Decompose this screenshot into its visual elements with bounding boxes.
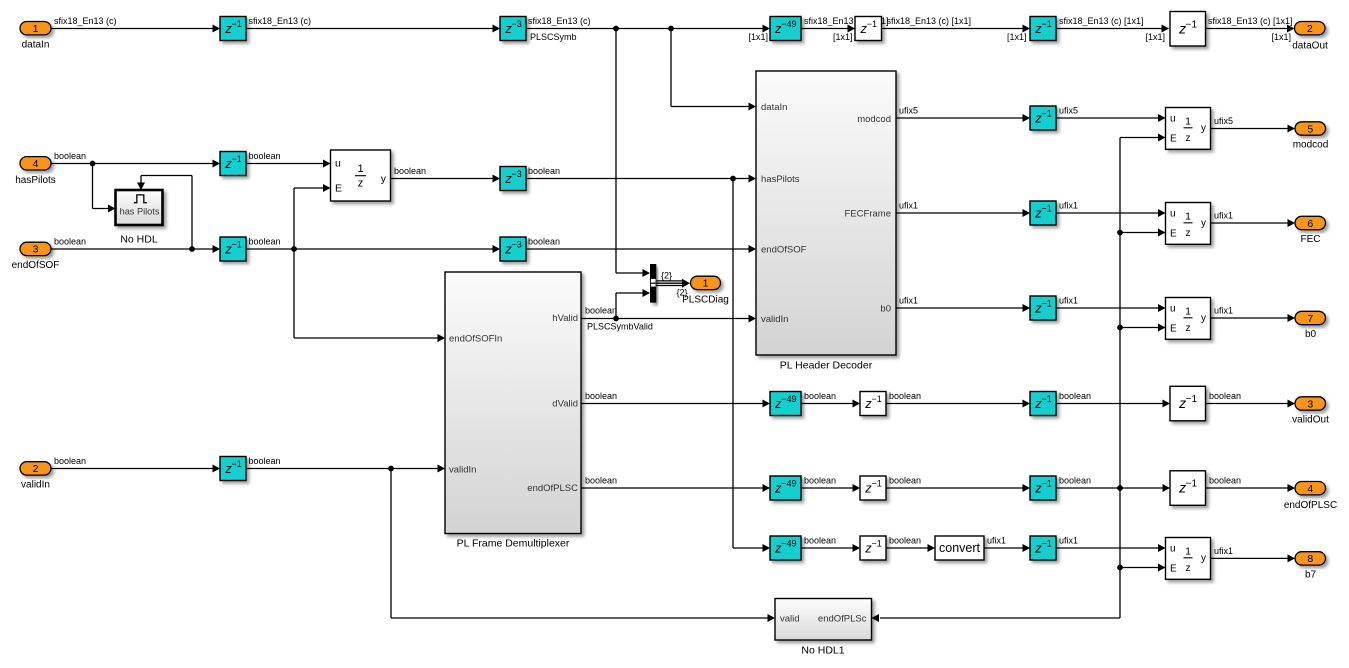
wire delay to enabled delay u [246, 163, 324, 165]
white delay Z-1 b7 row [860, 536, 886, 560]
big delay Z-1 endOfPLSC row [1170, 471, 1206, 506]
svg-text:FEC: FEC [1301, 234, 1321, 245]
white delay Z-1 dataIn row [855, 17, 882, 41]
wire validIn port to delay [51, 468, 214, 470]
output port 5 modcod [1295, 122, 1326, 136]
input port 4 hasPilots [20, 157, 51, 171]
wire PLSCSymbValid up [615, 293, 617, 319]
svg-text:boolean: boolean [249, 151, 281, 161]
svg-text:u: u [1170, 544, 1176, 555]
svg-text:boolean: boolean [1209, 475, 1241, 485]
svg-text:E: E [1170, 134, 1177, 145]
svg-text:endOfPLSC: endOfPLSC [527, 483, 578, 494]
svg-text:1: 1 [1185, 306, 1191, 318]
svg-text:y: y [1201, 553, 1206, 564]
wire cyan to big delay endOfPLSC [1056, 487, 1164, 489]
svg-text:1: 1 [357, 163, 363, 175]
svg-text:E: E [335, 183, 342, 195]
svg-text:−1: −1 [232, 240, 242, 250]
junction validIn tap [388, 466, 394, 472]
delay Z-1 dataIn row [220, 17, 246, 41]
svg-text:−3: −3 [512, 240, 522, 250]
svg-text:−1: −1 [1186, 394, 1198, 405]
svg-text:boolean: boolean [528, 236, 560, 246]
svg-text:−1: −1 [1042, 19, 1052, 29]
wire enabled delay y to z-3 [391, 178, 494, 180]
svg-text:endOfPLSC: endOfPLSC [1284, 500, 1337, 511]
svg-text:dataOut: dataOut [1292, 40, 1328, 51]
svg-text:ufix1: ufix1 [1214, 211, 1233, 221]
svg-text:b0: b0 [1305, 329, 1317, 340]
svg-text:endOfSOFIn: endOfSOFIn [449, 333, 502, 344]
svg-text:No HDL1: No HDL1 [801, 644, 844, 656]
svg-text:−1: −1 [1042, 479, 1052, 489]
svg-text:−3: −3 [512, 19, 522, 29]
wire enable distribution line [1119, 138, 1121, 619]
svg-text:−49: −49 [781, 539, 796, 549]
wire cyan to b7 unit delay u [1056, 547, 1159, 549]
svg-text:−1: −1 [1186, 479, 1198, 490]
svg-text:validIn: validIn [449, 464, 476, 475]
svg-text:z: z [1185, 322, 1190, 334]
wire dValid to z-49 [581, 403, 764, 405]
svg-text:validIn: validIn [21, 480, 50, 491]
svg-text:FECFrame: FECFrame [845, 209, 891, 220]
svg-text:sfix18_En13 (c): sfix18_En13 (c) [249, 16, 312, 26]
big delay Z-1 dataOut row [1170, 12, 1206, 47]
wire validIn down [390, 469, 392, 619]
wire z-49 to white delay [801, 28, 849, 30]
wire cyan to FEC unit delay u [1056, 212, 1159, 214]
svg-text:2: 2 [1307, 23, 1313, 35]
output port 3 validOut [1295, 397, 1326, 411]
svg-text:−1: −1 [872, 479, 882, 489]
wire endOfSOF up [191, 176, 193, 250]
svg-text:PLSCSymb: PLSCSymb [530, 32, 577, 42]
wire endOfSOF up to E [293, 188, 295, 249]
svg-text:boolean: boolean [54, 236, 86, 246]
wire into No HDL1 valid [391, 617, 769, 619]
svg-text:boolean: boolean [804, 535, 836, 545]
wire into modcod E [1120, 137, 1159, 139]
svg-text:u: u [1170, 209, 1176, 220]
delay Z-3 hasPilots path [500, 167, 526, 191]
svg-text:1: 1 [1185, 546, 1191, 558]
wire into enabled delay E [294, 187, 324, 189]
output port 2 dataOut [1295, 22, 1326, 36]
svg-text:y: y [1201, 218, 1206, 229]
svg-text:y: y [1201, 123, 1206, 134]
cyan delay Z-1 endOfPLSC row [1030, 476, 1056, 500]
wire z-49 to white delay dValid [801, 403, 854, 405]
enabled unit delay FEC [1166, 203, 1211, 245]
delay Z-1 validIn row [220, 457, 246, 481]
svg-text:boolean: boolean [1209, 391, 1241, 401]
wire modcod y to port 5 [1211, 128, 1289, 130]
svg-text:[1x1]: [1x1] [1271, 32, 1291, 42]
svg-text:−1: −1 [1042, 539, 1052, 549]
cyan delay Z-1 validOut row [1030, 392, 1056, 416]
svg-text:2: 2 [33, 463, 39, 475]
svg-text:boolean: boolean [585, 305, 617, 315]
svg-text:1: 1 [1185, 116, 1191, 128]
wire cyan to modcod unit delay u [1056, 117, 1159, 119]
svg-text:ufix1: ufix1 [987, 535, 1006, 545]
wire hValid to decoder validIn [581, 318, 750, 320]
svg-text:sfix18_En13 (c) [1x1]: sfix18_En13 (c) [1x1] [1208, 16, 1293, 26]
svg-text:[1x1]: [1x1] [748, 32, 768, 42]
svg-text:modcod: modcod [1293, 140, 1329, 151]
svg-text:modcod: modcod [857, 114, 891, 125]
junction endOfSOF tap B [291, 246, 297, 252]
svg-text:sfix18_En13 (c) [1x1]: sfix18_En13 (c) [1x1] [1059, 16, 1144, 26]
wire b7 y to port 8 [1211, 557, 1289, 559]
delay Z-49 b7 row [770, 536, 801, 560]
subsystem PL Header Decoder [756, 71, 896, 355]
svg-text:−1: −1 [1186, 19, 1198, 30]
svg-text:E: E [1170, 564, 1177, 575]
svg-text:[1x1]: [1x1] [1007, 32, 1027, 42]
arrowhead into No HDL1 endOfPLSc [872, 614, 880, 622]
subsystem has Pilots (No HDL) [116, 190, 163, 225]
svg-text:PL Frame Demultiplexer: PL Frame Demultiplexer [457, 538, 570, 550]
svg-text:PLSCSymbValid: PLSCSymbValid [587, 322, 653, 332]
svg-text:endOfPLSc: endOfPLSc [818, 613, 867, 624]
delay Z-1 hasPilots row [220, 152, 246, 176]
svg-text:4: 4 [1307, 483, 1313, 495]
svg-text:{2}: {2} [661, 270, 672, 280]
white delay Z-1 endOfPLSC row [860, 476, 886, 500]
cyan delay Z-1 dataOut row [1030, 17, 1056, 41]
svg-text:b0: b0 [880, 304, 891, 315]
svg-text:−3: −3 [512, 169, 522, 179]
wire cyan to b0 unit delay u [1056, 307, 1159, 309]
subsystem No HDL1 [775, 599, 872, 641]
wire cyan delay to big delay [1056, 28, 1163, 30]
svg-text:y: y [381, 173, 387, 185]
cyan delay Z-1 modcod row [1030, 106, 1056, 130]
subsystem PL Frame Demultiplexer [445, 272, 581, 534]
junction endOfPLSC enable tap [1117, 485, 1123, 491]
wire endOfSOF port to delay [51, 248, 214, 250]
junction PLSCSymb tap 1 [613, 26, 619, 32]
svg-text:z: z [358, 178, 364, 190]
wire into demux endOfSOFIn [294, 337, 439, 339]
svg-text:u: u [335, 158, 341, 170]
big delay Z-1 validOut row [1170, 386, 1206, 421]
svg-text:ufix1: ufix1 [1214, 306, 1233, 316]
wire PLSCSymb down to decoder [670, 29, 672, 107]
wire into bus creator input 1 [616, 272, 644, 274]
svg-text:has Pilots: has Pilots [120, 206, 160, 216]
svg-text:ufix1: ufix1 [1059, 295, 1078, 305]
svg-text:−1: −1 [872, 394, 882, 404]
svg-text:sfix18_En13 (c): sfix18_En13 (c) [528, 16, 591, 26]
wire FEC y to port 6 [1211, 222, 1289, 224]
svg-text:endOfSOF: endOfSOF [761, 244, 807, 255]
wire delay to z-3 endOfSOF [246, 248, 494, 250]
svg-text:ufix1: ufix1 [1059, 535, 1078, 545]
svg-text:1: 1 [33, 23, 39, 35]
svg-text:−1: −1 [872, 539, 882, 549]
output port 4 endOfPLSC [1295, 482, 1326, 496]
wire big delay to endOfPLSC port [1206, 487, 1289, 489]
svg-text:z: z [1185, 562, 1190, 574]
output port 1 PLSCDiag [691, 276, 721, 290]
svg-text:PL Header Decoder: PL Header Decoder [780, 359, 873, 371]
wire cyan to big delay validOut [1056, 403, 1164, 405]
wire b0 y to port 7 [1211, 317, 1289, 319]
cyan delay Z-1 b7 row [1030, 536, 1056, 560]
wire delay to demux validIn [246, 468, 439, 470]
svg-text:−1: −1 [232, 459, 242, 469]
svg-text:z: z [1185, 132, 1190, 144]
output port 8 b7 [1295, 552, 1326, 566]
svg-text:boolean: boolean [1059, 391, 1091, 401]
svg-text:boolean: boolean [249, 456, 281, 466]
svg-text:dataIn: dataIn [761, 102, 787, 113]
wire delay to z-3 [246, 28, 494, 30]
svg-text:valid: valid [780, 613, 800, 624]
enabled unit delay b7 [1166, 538, 1211, 580]
svg-text:sfix18_En13 (c): sfix18_En13 (c) [54, 16, 117, 26]
delay Z-1 endOfSOF row [220, 237, 246, 261]
svg-text:boolean: boolean [394, 166, 426, 176]
svg-text:{2}: {2} [677, 288, 688, 298]
svg-text:boolean: boolean [585, 391, 617, 401]
junction enable tap b7 [1117, 565, 1123, 571]
svg-text:convert: convert [939, 541, 981, 555]
wire endOfSOF left [141, 175, 192, 177]
svg-text:No HDL: No HDL [120, 234, 158, 246]
output port 6 FEC [1295, 216, 1326, 230]
wire hasPilots down [92, 164, 94, 209]
wire z-3 to decoder endOfSOF [526, 248, 750, 250]
delay Z-49 dValid row [770, 392, 801, 416]
svg-text:z: z [1185, 227, 1190, 239]
svg-text:6: 6 [1307, 218, 1313, 230]
svg-text:validIn: validIn [761, 314, 788, 325]
svg-text:boolean: boolean [889, 535, 921, 545]
wire b0 to cyan [896, 307, 1024, 309]
wire PLSCSymb down to bus [615, 29, 617, 274]
svg-text:−49: −49 [781, 479, 796, 489]
junction hasPilots delayed tap [730, 176, 736, 182]
svg-text:ufix1: ufix1 [899, 295, 918, 305]
input port 1 dataIn [20, 22, 51, 36]
enabled unit delay b0 [1166, 298, 1211, 340]
svg-text:ufix5: ufix5 [1059, 105, 1078, 115]
svg-text:ufix5: ufix5 [899, 105, 918, 115]
wire into b0 E [1120, 327, 1159, 329]
svg-text:boolean: boolean [249, 236, 281, 246]
svg-text:boolean: boolean [889, 391, 921, 401]
svg-text:endOfSOF: endOfSOF [12, 260, 60, 271]
svg-text:−49: −49 [781, 19, 796, 29]
wire endOfSOF down [293, 249, 295, 338]
bus creator PLSCDiag [650, 264, 656, 303]
wire into b7 E [1120, 567, 1159, 569]
convert block [935, 536, 984, 560]
wire endOfPLSC to z-49 [581, 487, 764, 489]
svg-text:dataIn: dataIn [22, 39, 50, 50]
wire hasPilots port to delay [51, 163, 214, 165]
svg-text:boolean: boolean [804, 475, 836, 485]
junction hasPilots tap [90, 161, 96, 167]
svg-text:boolean: boolean [585, 475, 617, 485]
enabled unit delay modcod [1166, 108, 1211, 150]
svg-text:7: 7 [1307, 313, 1313, 325]
white delay Z-1 dValid row [860, 392, 886, 416]
arrowhead into has Pilots top [137, 183, 145, 191]
svg-text:−1: −1 [1042, 109, 1052, 119]
svg-text:boolean: boolean [1059, 475, 1091, 485]
svg-text:b7: b7 [1305, 569, 1317, 580]
wire white delay to cyan delay [882, 28, 1024, 30]
svg-text:8: 8 [1307, 553, 1313, 565]
wire white delay to cyan endOfPLSC [886, 487, 1024, 489]
svg-text:ufix1: ufix1 [899, 200, 918, 210]
svg-text:−1: −1 [867, 19, 877, 29]
svg-text:[1x1]: [1x1] [1145, 32, 1165, 42]
wire into PL Header Decoder dataIn [671, 106, 750, 108]
wire FECFrame to cyan [896, 212, 1024, 214]
input port 3 endOfSOF [20, 242, 51, 256]
wire convert to cyan b7 [984, 547, 1024, 549]
svg-text:5: 5 [1307, 123, 1313, 135]
wire z-49 to white delay b7 [801, 547, 854, 549]
delay Z-3 endOfSOF path [500, 237, 526, 261]
wire big delay to validOut port [1206, 403, 1289, 405]
svg-text:boolean: boolean [54, 151, 86, 161]
cyan delay Z-1 b0 row [1030, 296, 1056, 320]
svg-text:3: 3 [33, 244, 39, 256]
svg-text:E: E [1170, 229, 1177, 240]
wire into FEC E [1120, 232, 1159, 234]
junction endOfSOF tap A [189, 246, 195, 252]
svg-text:ufix1: ufix1 [1214, 546, 1233, 556]
svg-text:boolean: boolean [528, 166, 560, 176]
wire z-3 to decoder hasPilots [526, 178, 750, 180]
svg-text:sfix18_En13 (c) [1x1]: sfix18_En13 (c) [1x1] [887, 16, 972, 26]
svg-text:u: u [1170, 304, 1176, 315]
wire into z-49 b7 row [733, 547, 764, 549]
wire modcod to cyan [896, 117, 1024, 119]
svg-text:PLSCDiag: PLSCDiag [682, 295, 729, 306]
svg-text:−1: −1 [232, 154, 242, 164]
svg-text:dValid: dValid [552, 399, 578, 410]
junction enable tap b0 [1117, 325, 1123, 331]
wire into bus creator input 2 [616, 292, 644, 294]
delay Z-3 dataIn row [500, 17, 526, 41]
wire white delay to convert [886, 547, 929, 549]
svg-text:u: u [1170, 114, 1176, 125]
wire z-3 to z-49 (PLSCSymb) [526, 28, 764, 30]
svg-text:−1: −1 [1042, 394, 1052, 404]
svg-text:boolean: boolean [54, 456, 86, 466]
svg-text:−1: −1 [1042, 204, 1052, 214]
svg-text:hasPilots: hasPilots [761, 174, 800, 185]
svg-text:1: 1 [1185, 211, 1191, 223]
junction PLSCSymb tap 2 [668, 26, 674, 32]
wire hasPilots delayed down to b7 row [732, 179, 734, 549]
output port 7 b0 [1295, 311, 1326, 325]
wire enable to No HDL1 endOfPLSc [880, 617, 1120, 619]
svg-text:hValid: hValid [552, 313, 578, 324]
svg-text:y: y [1201, 313, 1206, 324]
bus output PLSCDiag [651, 282, 684, 284]
svg-text:validOut: validOut [1292, 415, 1329, 426]
svg-text:−1: −1 [232, 19, 242, 29]
wire endOfSOF down to has Pilots top [140, 176, 142, 184]
svg-text:−49: −49 [781, 394, 796, 404]
svg-text:3: 3 [1307, 398, 1313, 410]
wire white delay to cyan dValid [886, 403, 1024, 405]
wire into has Pilots block [93, 208, 110, 210]
delay Z-49 endOfPLSC row [770, 476, 801, 500]
cyan delay Z-1 FEC row [1030, 201, 1056, 225]
svg-text:[1x1]: [1x1] [833, 32, 853, 42]
svg-text:boolean: boolean [804, 391, 836, 401]
junction PLSCSymbValid tap [613, 316, 619, 322]
svg-text:1: 1 [703, 278, 709, 290]
svg-text:ufix5: ufix5 [1214, 116, 1233, 126]
svg-text:ufix1: ufix1 [1059, 200, 1078, 210]
svg-text:−1: −1 [1042, 299, 1052, 309]
wire z-49 to white delay endOfPLSC [801, 487, 854, 489]
wire big delay to dataOut port [1205, 28, 1288, 30]
svg-text:boolean: boolean [889, 475, 921, 485]
svg-text:E: E [1170, 324, 1177, 335]
delay Z-49 dataIn row [770, 17, 801, 41]
enabled unit delay hasPilots [331, 150, 391, 201]
input port 2 validIn [20, 462, 51, 476]
svg-text:4: 4 [33, 158, 39, 170]
wire dataIn port to delay [51, 28, 214, 30]
svg-text:hasPilots: hasPilots [15, 175, 56, 186]
junction enable tap FEC [1117, 230, 1123, 236]
